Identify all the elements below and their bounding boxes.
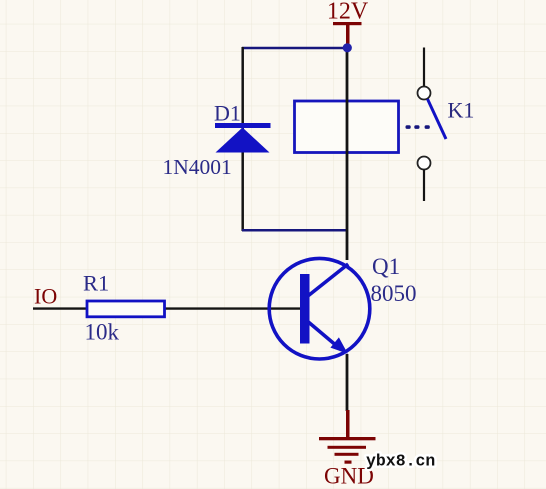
svg-text:1N4001: 1N4001 <box>163 155 232 179</box>
wire emitter to ground <box>346 354 349 411</box>
switch K1 linkage dots <box>406 125 430 129</box>
label K1 <box>448 98 475 123</box>
switch K1 bottom pin wire <box>423 170 425 202</box>
wire R1 to Q1 base <box>164 307 301 309</box>
junction node at 12V <box>343 43 352 52</box>
relay coil K1 <box>295 101 399 153</box>
svg-text:K1: K1 <box>448 98 475 123</box>
wire main vertical (12V node through relay to collector) <box>346 47 349 260</box>
switch K1 lever <box>428 99 447 139</box>
label 1N4001 <box>163 155 232 179</box>
switch K1 bottom contact <box>418 157 431 170</box>
label 10k <box>85 320 120 345</box>
label 8050 <box>371 281 417 306</box>
label GND <box>324 464 374 489</box>
svg-text:ybx8.cn: ybx8.cn <box>366 452 435 471</box>
switch K1 top contact <box>418 87 431 100</box>
svg-text:Q1: Q1 <box>372 254 400 279</box>
watermark ybx8.cn <box>366 452 435 471</box>
svg-text:R1: R1 <box>83 271 109 296</box>
svg-text:10k: 10k <box>85 320 120 345</box>
label D1 <box>214 101 241 126</box>
wire bottom horizontal (diode branch to collector node) <box>242 229 347 232</box>
net label 12V <box>327 0 369 25</box>
svg-text:8050: 8050 <box>371 281 417 306</box>
ground <box>319 410 376 464</box>
transistor Q1 <box>269 258 370 359</box>
resistor R1 <box>87 301 165 317</box>
net label IO <box>34 284 57 309</box>
diode D1 <box>215 123 271 153</box>
switch K1 top pin wire <box>423 48 425 87</box>
svg-text:IO: IO <box>34 284 57 309</box>
label Q1 <box>372 254 400 279</box>
wire left vertical (diode branch) <box>241 47 244 231</box>
wire top horizontal (12V node to diode branch) <box>242 47 348 50</box>
svg-text:D1: D1 <box>214 101 241 126</box>
label R1 <box>83 271 109 296</box>
power symbol 12V <box>333 22 362 46</box>
svg-text:12V: 12V <box>327 0 369 25</box>
wire IO to R1 <box>33 307 87 309</box>
